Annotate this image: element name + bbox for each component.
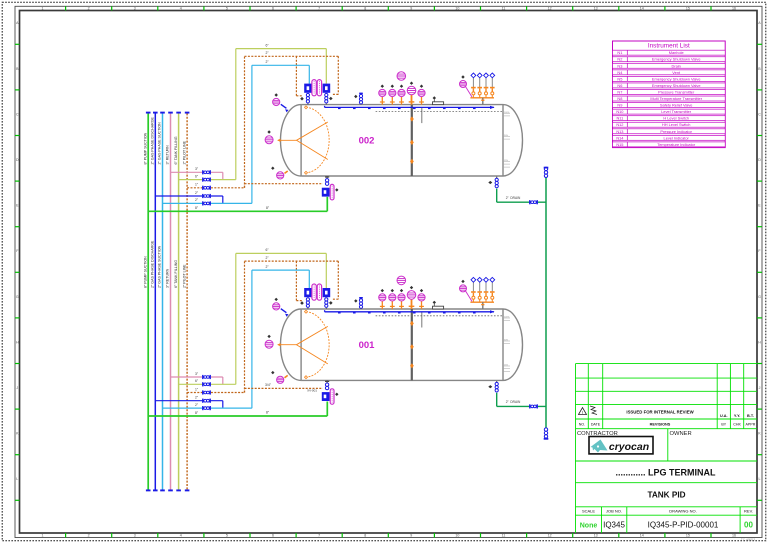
pipe labels upper set (rotated): [143, 116, 186, 164]
svg-text:B: B: [16, 67, 19, 71]
svg-text:15%: 15%: [504, 364, 508, 366]
svg-text:3/4": 3/4": [265, 383, 272, 387]
tank 001 relief instrument leader line: [465, 291, 472, 302]
svg-text:13: 13: [594, 534, 598, 538]
tank 001 level transmitter bubble N10: [398, 294, 405, 301]
svg-text:N5: N5: [617, 76, 622, 81]
instrument list row N3 Drain: [613, 63, 726, 68]
branch pipe 8in pump suction to tank 001: [148, 415, 327, 417]
svg-text:3" RETURN: 3" RETURN: [166, 268, 170, 288]
pipe labels lower set (rotated): [143, 240, 186, 288]
svg-text:A: A: [758, 21, 761, 25]
tank 001 pressure indicator bubble floating: [397, 276, 406, 285]
svg-text:1: 1: [42, 534, 44, 538]
tank 002 temperature transmitter bubble N8: [389, 89, 396, 96]
revision warning triangle symbol: [579, 408, 587, 415]
tank 001 head bottom instrument bubble: [277, 376, 284, 383]
tank 001 manifold joint ticks: [338, 312, 476, 313]
tank 002 instrument diamond: [381, 85, 384, 88]
svg-text:HH Level Switch: HH Level Switch: [662, 122, 691, 127]
valve on gas discharge branch 002: [202, 194, 211, 198]
svg-text:Multi Temperature Transmitter: Multi Temperature Transmitter: [650, 96, 702, 101]
svg-text:6": 6": [195, 379, 199, 383]
tank 001 dished head inner profile (orange dashed): [306, 312, 329, 378]
tank 001 top ESV flange stacks: [306, 298, 309, 308]
tank 001 pressure transmitter bubble N7: [379, 294, 386, 301]
tank 001 instrument nozzles: [380, 299, 424, 309]
main end caps top: [146, 112, 151, 114]
tank 001 shell: [281, 309, 523, 380]
tank 002 vapour manifold (blue): [325, 106, 494, 108]
title block grid: [576, 364, 758, 533]
tank 002 instrument diamond: [400, 85, 403, 88]
valve on pilot branch 001: [202, 390, 211, 394]
svg-text:1": 1": [195, 183, 199, 187]
tank 002 mid head diamond: [267, 130, 270, 133]
tank 001 dip pipe sensor marks: [410, 321, 414, 326]
tank 002 head bottom orange tick: [285, 171, 288, 173]
branch pipe 2in gas discharge to tank 002: [155, 195, 223, 197]
svg-text:3": 3": [195, 167, 199, 171]
tank 001 head bottom diamond: [271, 371, 274, 374]
instrument list row N2 Emergency Shutdown Valve: [613, 57, 726, 62]
svg-text:E: E: [758, 204, 761, 208]
svg-text:7: 7: [318, 7, 320, 11]
tank 001 level switch bubble N11: [407, 291, 416, 300]
svg-text:D: D: [16, 158, 19, 162]
svg-text:00: 00: [744, 521, 753, 530]
tank 001 instrument diamond: [381, 289, 384, 292]
svg-text:N13: N13: [616, 129, 623, 134]
instrument list row N10 Level Transmitter: [613, 109, 726, 114]
svg-text:2" PILOT LINE: 2" PILOT LINE: [182, 264, 186, 288]
svg-text:B.T.: B.T.: [747, 414, 754, 418]
drain header top flange stack: [544, 167, 547, 170]
tank 002 internal suction dashed line: [376, 110, 503, 112]
svg-text:8": 8": [266, 206, 270, 210]
tank 002 pump suction ESV body: [322, 188, 330, 197]
pilot drop right 002: [337, 56, 339, 94]
instrument list row N8 Multi Temperature Transmitter: [613, 96, 726, 101]
instrument list row N1 Manhole: [613, 50, 726, 55]
svg-text:100%: 100%: [504, 112, 509, 114]
tank 001 drain valve: [529, 404, 538, 408]
branch pipe 2in gas discharge to tank 001: [155, 400, 223, 402]
tank 002 vent stack diamond: [354, 95, 357, 98]
tank 001 vapour manifold (blue): [325, 310, 494, 312]
svg-text:T.C. A00113: T.C. A00113: [741, 538, 755, 542]
svg-text:002: 002: [359, 136, 375, 147]
tank 002 manhole N1: [433, 102, 444, 105]
svg-text:2": 2": [195, 198, 199, 202]
tank 002 drain pipe green: [496, 189, 498, 203]
svg-text:A: A: [16, 21, 19, 25]
svg-text:Safety Relief Valve: Safety Relief Valve: [660, 103, 693, 108]
riser pilot orange dashed 002: [244, 56, 246, 188]
tank 002 instrument diamond: [391, 85, 394, 88]
tank 002 pump suction flanges: [325, 179, 328, 186]
svg-text:100%: 100%: [504, 316, 509, 318]
svg-text:F: F: [758, 249, 761, 253]
instrument list row N12 HH Level Switch: [613, 122, 726, 127]
branch pipe 8in pump suction to tank 002: [148, 210, 327, 212]
tank 002 drain valve: [529, 200, 538, 204]
svg-text:1": 1": [195, 387, 199, 391]
pipe main 6in tank filling (olive vertical): [178, 113, 180, 490]
svg-text:L: L: [16, 477, 18, 481]
tank 001 pump suction ESV body: [322, 392, 330, 401]
svg-text:8": 8": [195, 206, 199, 210]
riser 2in gas suction cyan 001: [251, 270, 253, 408]
svg-text:2": 2": [195, 191, 199, 195]
valve on return branch 001: [202, 375, 211, 379]
svg-text:APPR: APPR: [746, 423, 756, 427]
svg-text:11: 11: [502, 7, 506, 11]
svg-text:Emergency Shutdown Valve: Emergency Shutdown Valve: [652, 57, 701, 62]
valve on gas suction branch 001: [202, 406, 211, 410]
tank 002 temperature bubble mid head: [265, 136, 273, 144]
instrument list row N13 Pressure Indicator: [613, 129, 726, 134]
valve on gas suction branch 002: [202, 201, 211, 205]
svg-text:N4: N4: [617, 70, 623, 75]
tank 001 head top instrument bubble: [273, 303, 280, 310]
svg-text:H: H: [16, 340, 19, 344]
tank 002 internal gauge stub: [421, 107, 423, 123]
pipe main 2in pilot line (orange dashed vertical): [186, 113, 188, 490]
main end caps bottom: [146, 489, 151, 491]
tank 002 shell: [281, 105, 523, 176]
instrument list row N4 Vent: [613, 70, 726, 75]
svg-text:6": 6": [265, 248, 269, 252]
instrument list row N9 Safety Relief Valve: [613, 103, 726, 108]
tank 001 manhole N1: [433, 306, 444, 309]
svg-text:Level Transmitter: Level Transmitter: [661, 109, 692, 114]
tank 001 pump suction ESV diamond: [335, 393, 338, 396]
svg-text:16: 16: [732, 7, 736, 11]
tank 001 vent stack diamond: [354, 299, 357, 302]
drain header vertical green: [545, 177, 547, 439]
tank 001 instrument diamond: [391, 289, 394, 292]
tank 001 temperature transmitter bubble N8: [389, 294, 396, 301]
svg-text:K: K: [16, 432, 19, 436]
tank 001 instrument diamond: [400, 289, 403, 292]
tank 001 level gauge marks: [504, 318, 510, 372]
svg-text:16: 16: [732, 534, 736, 538]
svg-text:14: 14: [640, 7, 644, 11]
tank 001 vent valve stack: [359, 297, 363, 299]
tank 001 top ESV actuator bellows: [312, 284, 316, 300]
svg-text:!: !: [582, 410, 583, 415]
svg-text:N12: N12: [616, 122, 623, 127]
tank 002 pump suction ESV diamond: [335, 188, 338, 191]
svg-text:9: 9: [410, 7, 412, 11]
svg-text:Level Indicator: Level Indicator: [664, 135, 690, 140]
svg-text:13: 13: [594, 7, 598, 11]
svg-text:5: 5: [226, 534, 228, 538]
tank 002 level transmitter bubble N10: [398, 89, 405, 96]
svg-text:50%: 50%: [504, 339, 508, 341]
svg-text:REVISIONS: REVISIONS: [650, 423, 671, 427]
svg-text:2" GAS PHASE SUCTION: 2" GAS PHASE SUCTION: [158, 245, 162, 288]
instrument list row N11 H Level Switch: [613, 116, 726, 121]
tank 002 pump suction ESV actuator: [330, 184, 334, 200]
svg-text:DATE: DATE: [591, 423, 601, 427]
svg-text:DRAWING NO.: DRAWING NO.: [669, 508, 696, 513]
svg-text:3: 3: [134, 534, 136, 538]
svg-text:D: D: [758, 158, 761, 162]
svg-text:Emergency Shutdown Valve: Emergency Shutdown Valve: [652, 83, 701, 88]
riser pilot orange dashed 001: [244, 261, 246, 393]
svg-text:G: G: [16, 295, 19, 299]
valve on return branch 002: [202, 170, 211, 174]
drain header bottom flange stack: [544, 428, 547, 431]
svg-text:Pressure Indicator: Pressure Indicator: [660, 129, 692, 134]
tank 002 relief manifold: [470, 97, 494, 99]
pipe main 8in pump suction (green vertical): [147, 113, 149, 490]
svg-text:N3: N3: [617, 63, 622, 68]
tank 002 drain nozzle flanges: [496, 176, 498, 178]
branch pipe 2in gas suction to tank 001: [163, 407, 252, 409]
svg-text:10: 10: [455, 7, 459, 11]
tank 001 temperature bubble mid head: [265, 340, 273, 348]
svg-text:15%: 15%: [504, 160, 508, 162]
pilot drop left 002: [295, 56, 297, 96]
tank 001 relief manifold: [470, 301, 494, 303]
pipe main 3in return (pink vertical): [170, 113, 172, 490]
riser 6in filling olive 002: [235, 49, 237, 180]
svg-text:2" GAS PHASE SUCTION: 2" GAS PHASE SUCTION: [158, 122, 162, 165]
svg-text:BY: BY: [721, 423, 726, 427]
svg-text:2": 2": [195, 403, 199, 407]
svg-text:3: 3: [134, 7, 136, 11]
svg-text:N9: N9: [617, 103, 622, 108]
svg-text:4: 4: [180, 534, 182, 538]
svg-text:6": 6": [265, 43, 269, 47]
svg-text:Y.Y.: Y.Y.: [734, 414, 740, 418]
svg-text:5: 5: [226, 7, 228, 11]
branch pipe 2in gas suction to tank 002: [163, 202, 252, 204]
svg-text:8: 8: [364, 7, 366, 11]
tank 002 top ESV pilot diamonds: [300, 97, 304, 101]
instrument list row N5 Emergency Shutdown Valve: [613, 76, 726, 81]
instrument list table outer border: [613, 41, 726, 148]
pilot line to pump ESV 001: [244, 388, 246, 392]
svg-text:N7: N7: [617, 89, 622, 94]
tank 001 head top leader arrow: [281, 309, 287, 313]
svg-text:1: 1: [42, 7, 44, 11]
svg-text:N14: N14: [616, 135, 624, 140]
svg-text:Emergency Shutdown Valve: Emergency Shutdown Valve: [652, 76, 701, 81]
branch pipe 1in pilot to tank 002: [187, 187, 244, 189]
tank 001 instrument diamond: [420, 289, 423, 292]
svg-text:C: C: [758, 112, 761, 116]
tank 001 internal dip pipe: [411, 309, 413, 380]
svg-text:N6: N6: [617, 83, 622, 88]
svg-text:None: None: [580, 522, 598, 529]
svg-text:2": 2": [265, 51, 269, 55]
svg-text:10: 10: [455, 534, 459, 538]
svg-text:N1: N1: [617, 50, 622, 55]
tank 001 pump suction ESV actuator: [330, 389, 334, 405]
svg-text:JOB NO.: JOB NO.: [606, 508, 622, 513]
svg-text:Pressure Transmitter: Pressure Transmitter: [658, 89, 695, 94]
tank 002 head bottom instrument bubble: [277, 172, 284, 179]
svg-text:TANK PID: TANK PID: [647, 491, 685, 500]
svg-text:15: 15: [686, 7, 690, 11]
tank 001 internal gauge stub: [421, 312, 423, 328]
svg-text:2" DRAIN: 2" DRAIN: [506, 196, 521, 200]
svg-text:2": 2": [265, 265, 269, 269]
tank 002 relief instrument diamond: [461, 75, 464, 78]
svg-text:N15: N15: [616, 142, 623, 147]
tank 002 safety relief valves N9: [471, 73, 495, 98]
svg-text:2": 2": [195, 396, 199, 400]
pipe main 2in gas phase discharge (blue vertical): [154, 113, 156, 490]
svg-text:B: B: [758, 67, 761, 71]
svg-text:2" DRAIN: 2" DRAIN: [506, 400, 521, 404]
tank 002 top ESV left valve body: [304, 84, 311, 93]
valve on gas discharge branch 001: [202, 399, 211, 403]
instrument list row N14 Level Indicator: [613, 135, 726, 140]
svg-text:XV-001: XV-001: [307, 388, 317, 392]
tank 002 instrument diamond: [420, 85, 423, 88]
riser 2in gas suction cyan 002: [251, 65, 253, 203]
pump suction link 001: [326, 402, 328, 417]
cryocan logo teal emblem: [591, 440, 608, 453]
tank 001 head bottom orange tick: [285, 375, 288, 377]
tank 001 top ESV right valve body: [323, 288, 331, 297]
tank 002 pump suction nozzle: [326, 176, 328, 178]
tank 002 instrument diamond: [410, 82, 413, 85]
tank 001 top ESV pilot diamonds: [300, 301, 304, 305]
svg-text:9: 9: [410, 534, 412, 538]
svg-text:............ LPG TERMINAL: ............ LPG TERMINAL: [615, 468, 716, 478]
svg-text:11: 11: [502, 534, 506, 538]
pilot drop left 001: [295, 261, 297, 301]
tank 002 manhole diamond: [433, 96, 436, 99]
instrument list row N6 Emergency Shutdown Valve: [613, 83, 726, 88]
svg-text:8": 8": [195, 411, 199, 415]
tank 002 pressure transmitter bubble N7: [379, 89, 386, 96]
tank 002 level gauge marks: [504, 114, 510, 168]
svg-text:U.A.: U.A.: [720, 414, 728, 418]
tank 001 drain diamond: [488, 385, 492, 388]
pump suction link 002: [326, 197, 328, 212]
svg-text:OWNER: OWNER: [670, 431, 692, 437]
tank 002 vent valve stack: [359, 93, 363, 95]
tank 002 level switch bubble N11: [407, 86, 416, 95]
svg-text:12: 12: [548, 534, 552, 538]
svg-text:2" GAS PHASE DISCHARGE: 2" GAS PHASE DISCHARGE: [151, 240, 155, 288]
svg-text:7: 7: [318, 534, 320, 538]
tank 001 mid head diamond: [267, 335, 270, 338]
tank 001 instrument diamond: [410, 286, 413, 289]
svg-text:12: 12: [548, 7, 552, 11]
svg-text:8" PUMP SUCTION: 8" PUMP SUCTION: [143, 132, 147, 164]
svg-text:2": 2": [265, 60, 269, 64]
tank 002 head top instrument bubble: [273, 98, 280, 105]
svg-text:8" PUMP SUCTION: 8" PUMP SUCTION: [143, 256, 147, 288]
valve on pilot branch 002: [202, 186, 211, 190]
svg-text:8": 8": [266, 411, 270, 415]
instrument list row N15 Temperature Indicator: [613, 142, 726, 147]
svg-text:6" TANK FILLING: 6" TANK FILLING: [174, 136, 178, 164]
riser 6in filling olive 001: [235, 253, 237, 384]
branch pipe 1in pilot to tank 001: [187, 392, 244, 394]
svg-text:CHK: CHK: [733, 423, 741, 427]
svg-text:NO.: NO.: [579, 423, 585, 427]
svg-text:14: 14: [640, 534, 644, 538]
tank 002 top ESV right valve body: [323, 84, 331, 93]
tank 002 head bottom diamond: [271, 167, 274, 170]
tank 001 internal suction dashed line: [376, 315, 503, 317]
svg-text:001: 001: [359, 340, 376, 351]
tank 002 head top diamond: [275, 93, 278, 96]
pipe main 2in gas phase suction (cyan vertical): [162, 113, 164, 490]
tank 002 internal dip pipe: [411, 105, 413, 176]
svg-text:3" RETURN: 3" RETURN: [166, 145, 170, 165]
tank 002 dip pipe sensor marks: [410, 116, 414, 121]
svg-text:6": 6": [195, 174, 199, 178]
tank 001 top ESV left valve body: [304, 288, 311, 297]
tank 002 relief instrument leader line: [465, 86, 472, 97]
svg-text:6: 6: [272, 534, 274, 538]
svg-text:K: K: [758, 432, 761, 436]
tank 002 relief instrument bubble: [460, 81, 467, 88]
branch pipe 3in return to tank 001: [171, 376, 223, 378]
tank 001 manhole diamond: [433, 301, 436, 304]
svg-text:8: 8: [364, 534, 366, 538]
svg-text:H: H: [758, 340, 761, 344]
svg-text:Vent: Vent: [672, 70, 681, 75]
tank 002 head top leader arrow: [281, 104, 287, 108]
svg-text:50%: 50%: [504, 135, 508, 137]
svg-text:2: 2: [88, 534, 90, 538]
svg-text:2: 2: [88, 7, 90, 11]
tank 002 temperature probe arms: [278, 122, 328, 160]
tank 001 safety relief valves N9: [471, 277, 495, 302]
svg-text:15: 15: [686, 534, 690, 538]
tank 002 pressure indicator bubble floating: [397, 72, 406, 81]
tank 002 top ESV flange stacks: [306, 93, 309, 103]
svg-text:N8: N8: [617, 96, 622, 101]
branch pipe 3in return to tank 002: [171, 171, 223, 173]
branch pipe 6in tank filling to tank 001: [179, 383, 236, 385]
svg-text:REV.: REV.: [744, 508, 753, 513]
tank 002 level switch bubble N12: [418, 89, 425, 96]
valve on filling branch 001: [202, 382, 211, 386]
svg-text:Instrument List: Instrument List: [648, 43, 690, 50]
svg-text:L: L: [759, 477, 761, 481]
svg-text:Manhole: Manhole: [669, 50, 684, 55]
revision stamp scribble: [590, 406, 597, 415]
svg-text:Drain: Drain: [672, 63, 681, 68]
tank 002 manifold joint ticks: [338, 108, 476, 109]
svg-text:4: 4: [180, 7, 182, 11]
tank 002 top ESV actuator bellows: [312, 80, 316, 96]
pilot line to pump ESV 002: [244, 184, 246, 188]
tank 002 instrument nozzles: [380, 95, 424, 105]
tank 001 drain pipe green: [496, 393, 498, 407]
svg-text:2" PILOT LINE: 2" PILOT LINE: [182, 140, 186, 164]
tank 001 pump suction nozzle: [326, 380, 328, 382]
valve on filling branch 002: [202, 178, 211, 182]
svg-text:H Level Switch: H Level Switch: [663, 116, 689, 121]
svg-text:2" GAS PHASE DISCHARGE: 2" GAS PHASE DISCHARGE: [151, 116, 155, 164]
pilot drop right 001: [337, 261, 339, 299]
svg-text:6" TANK FILLING: 6" TANK FILLING: [174, 260, 178, 288]
tank 001 relief instrument bubble: [460, 285, 467, 292]
